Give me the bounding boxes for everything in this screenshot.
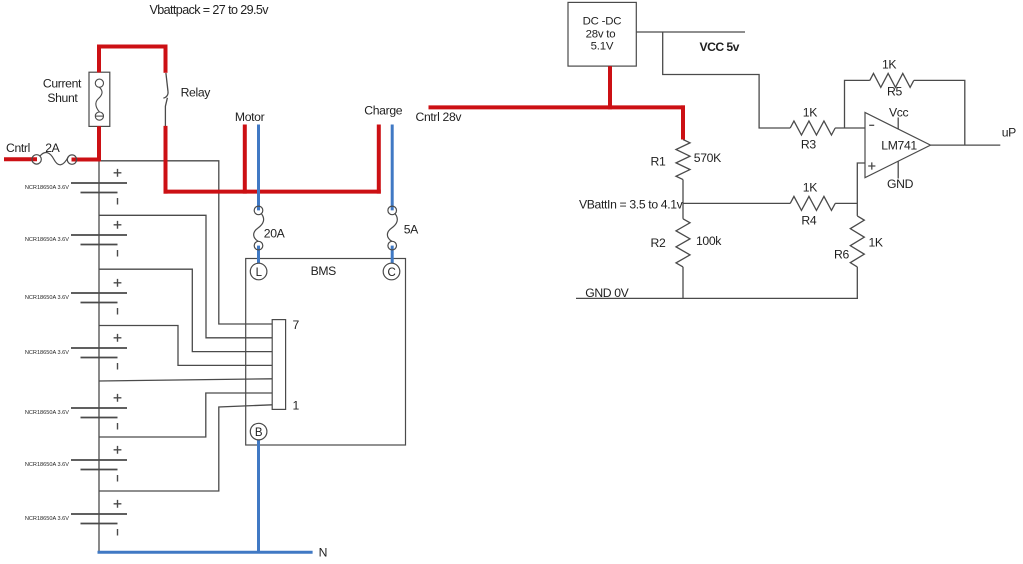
- svg-text:R3: R3: [801, 138, 816, 152]
- svg-text:20A: 20A: [264, 226, 286, 240]
- svg-text:1K: 1K: [803, 105, 817, 119]
- svg-text:N: N: [319, 546, 327, 560]
- svg-text:NCR18650A 3.6V: NCR18650A 3.6V: [25, 516, 69, 522]
- svg-text:570K: 570K: [694, 151, 721, 165]
- svg-text:1K: 1K: [882, 57, 896, 71]
- svg-text:B: B: [255, 427, 263, 439]
- svg-text:Charge: Charge: [364, 104, 402, 118]
- svg-text:LM741: LM741: [881, 138, 917, 152]
- svg-text:NCR18650A 3.6V: NCR18650A 3.6V: [25, 237, 69, 243]
- svg-text:NCR18650A 3.6V: NCR18650A 3.6V: [25, 462, 69, 468]
- svg-text:uP: uP: [1002, 126, 1016, 140]
- svg-text:5A: 5A: [404, 223, 419, 237]
- svg-text:L: L: [256, 267, 263, 279]
- svg-text:DC -DC: DC -DC: [583, 15, 622, 27]
- svg-text:7: 7: [293, 318, 300, 332]
- svg-text:Current: Current: [43, 77, 82, 91]
- svg-text:Motor: Motor: [235, 110, 265, 124]
- svg-text:Cntrl 28v: Cntrl 28v: [416, 110, 463, 124]
- svg-text:Vcc: Vcc: [889, 106, 909, 120]
- svg-text:BMS: BMS: [311, 264, 337, 278]
- svg-text:Shunt: Shunt: [47, 91, 78, 105]
- svg-text:VBattIn = 3.5 to 4.1v: VBattIn = 3.5 to 4.1v: [579, 197, 684, 211]
- svg-text:R2: R2: [651, 236, 666, 250]
- svg-text:GND 0V: GND 0V: [585, 286, 629, 300]
- svg-text:VCC 5v: VCC 5v: [700, 40, 740, 54]
- svg-text:NCR18650A 3.6V: NCR18650A 3.6V: [25, 350, 69, 356]
- svg-text:Cntrl: Cntrl: [6, 141, 30, 155]
- svg-text:Relay: Relay: [181, 86, 212, 100]
- svg-text:NCR18650A 3.6V: NCR18650A 3.6V: [25, 295, 69, 301]
- svg-text:R1: R1: [651, 154, 666, 168]
- svg-text:R5: R5: [887, 84, 902, 98]
- svg-text:R4: R4: [801, 213, 816, 227]
- svg-text:NCR18650A 3.6V: NCR18650A 3.6V: [25, 410, 69, 416]
- svg-text:5.1V: 5.1V: [591, 41, 614, 53]
- svg-text:R6: R6: [834, 247, 849, 261]
- svg-text:NCR18650A 3.6V: NCR18650A 3.6V: [25, 185, 69, 191]
- svg-text:28v to: 28v to: [586, 28, 616, 40]
- svg-text:C: C: [388, 267, 396, 279]
- svg-text:2A: 2A: [45, 141, 60, 155]
- svg-text:Vbattpack = 27 to 29.5v: Vbattpack = 27 to 29.5v: [150, 3, 270, 17]
- svg-text:1: 1: [293, 398, 300, 412]
- svg-text:GND: GND: [887, 177, 914, 191]
- svg-text:100k: 100k: [696, 234, 722, 248]
- svg-text:1K: 1K: [803, 180, 817, 194]
- svg-text:1K: 1K: [869, 236, 883, 250]
